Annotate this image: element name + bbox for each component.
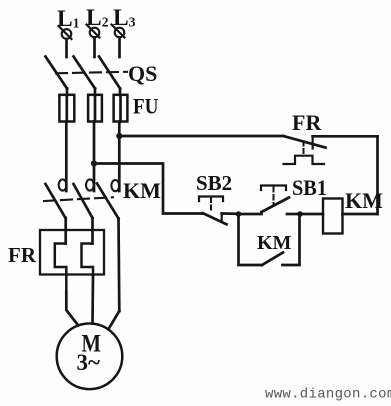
pushbutton SB2 seat bbox=[221, 213, 223, 220]
svg-text:SB1: SB1 bbox=[292, 175, 327, 200]
contactor KM linkage dashed bbox=[44, 197, 113, 201]
thermal relay FR heater 2 bbox=[82, 244, 94, 276]
svg-text:FR: FR bbox=[8, 243, 37, 267]
pushbutton SB1 NO blade bbox=[262, 198, 290, 213]
svg-text:L3: L3 bbox=[113, 5, 136, 31]
FR NC contact seat bbox=[312, 137, 314, 149]
wire KM2 to FR heater 2 bbox=[91, 218, 94, 244]
node B junction bbox=[297, 211, 303, 217]
switch QS linkage dashed bbox=[56, 72, 127, 74]
wire L3 to QS bbox=[118, 38, 121, 58]
wire QS3 to FU3 bbox=[119, 89, 122, 96]
node phase2 junction bbox=[91, 160, 97, 166]
fuse FU2 bbox=[88, 95, 102, 122]
FR link dashed bbox=[303, 142, 305, 156]
wire phase2 jog to control rail bbox=[94, 164, 203, 214]
wire to coil right bbox=[343, 213, 378, 216]
thermal relay FR heater 1 bbox=[55, 244, 67, 293]
wire KM3 down bbox=[117, 219, 121, 312]
wire right side down bbox=[376, 136, 379, 214]
motor M bbox=[57, 324, 123, 390]
node A junction bbox=[236, 211, 242, 217]
KM auxiliary contact right branch bbox=[283, 214, 300, 265]
pushbutton SB2 NC blade bbox=[203, 213, 227, 224]
svg-text:KM: KM bbox=[345, 188, 383, 213]
FR NC contact right wire bbox=[313, 135, 378, 138]
wire L1 to QS bbox=[65, 39, 68, 57]
contactor coil KM bbox=[323, 199, 343, 234]
wire FU3 to KM3 bbox=[118, 122, 121, 192]
node phase3 junction bbox=[116, 133, 122, 139]
wire FR2 to motor bbox=[91, 276, 94, 324]
wire FU2 to KM2 bbox=[93, 122, 96, 192]
terminal L3 bbox=[112, 25, 125, 38]
contactor KM pole 3 fixed contact bbox=[111, 180, 119, 191]
svg-text:FR: FR bbox=[292, 110, 322, 135]
switch QS pole 2 blade bbox=[74, 57, 96, 89]
contactor KM pole 2 fixed contact bbox=[86, 179, 94, 190]
contactor KM pole 1 blade bbox=[46, 184, 66, 218]
fuse FU1 bbox=[59, 95, 74, 122]
contactor KM pole 3 blade bbox=[97, 184, 119, 219]
pushbutton SB1 cap bbox=[261, 186, 286, 191]
wire node B to coil bbox=[300, 213, 323, 216]
wire QS1 to FU1 bbox=[66, 89, 69, 96]
pushbutton SB2 stem dashed bbox=[210, 198, 212, 212]
terminal L2 bbox=[87, 25, 100, 38]
wire KM1 to FR heater 1 bbox=[64, 218, 67, 244]
wire phase3 to motor bbox=[108, 311, 119, 329]
FR thermal element symbol bbox=[284, 156, 325, 164]
wire phase3 to FR contact (control top rail) bbox=[119, 135, 283, 138]
svg-text:SB2: SB2 bbox=[196, 171, 232, 195]
svg-text:3~: 3~ bbox=[77, 350, 101, 375]
KM auxiliary contact blade bbox=[262, 253, 283, 266]
svg-text:www.diangon.com: www.diangon.com bbox=[265, 387, 391, 403]
thermal relay FR box bbox=[40, 230, 104, 275]
svg-text:QS: QS bbox=[128, 61, 157, 86]
svg-text:KM: KM bbox=[257, 232, 292, 254]
fuse FU3 bbox=[114, 95, 128, 122]
pushbutton SB2 cap bbox=[199, 197, 223, 202]
svg-text:FU: FU bbox=[133, 94, 159, 119]
wire L2 to QS bbox=[93, 38, 96, 58]
wire SB2 to node A bbox=[222, 212, 239, 215]
wire node A to SB1 bbox=[239, 213, 262, 216]
wire FU1 to KM1 bbox=[65, 122, 68, 192]
pushbutton SB1 stem dashed bbox=[273, 187, 275, 205]
wire QS2 to FU2 bbox=[94, 89, 97, 96]
switch QS pole 1 blade bbox=[46, 57, 68, 89]
wire FR1 to motor bbox=[66, 293, 78, 326]
terminal L1 bbox=[59, 26, 72, 39]
contactor KM pole 2 blade bbox=[74, 184, 93, 218]
FR NC contact blade bbox=[284, 136, 326, 148]
switch QS pole 3 blade bbox=[99, 57, 120, 89]
contactor KM pole 1 fixed contact bbox=[59, 179, 67, 190]
wire SB1 to node B bbox=[287, 213, 300, 216]
KM auxiliary contact left branch bbox=[239, 214, 263, 265]
svg-text:KM: KM bbox=[123, 178, 161, 203]
